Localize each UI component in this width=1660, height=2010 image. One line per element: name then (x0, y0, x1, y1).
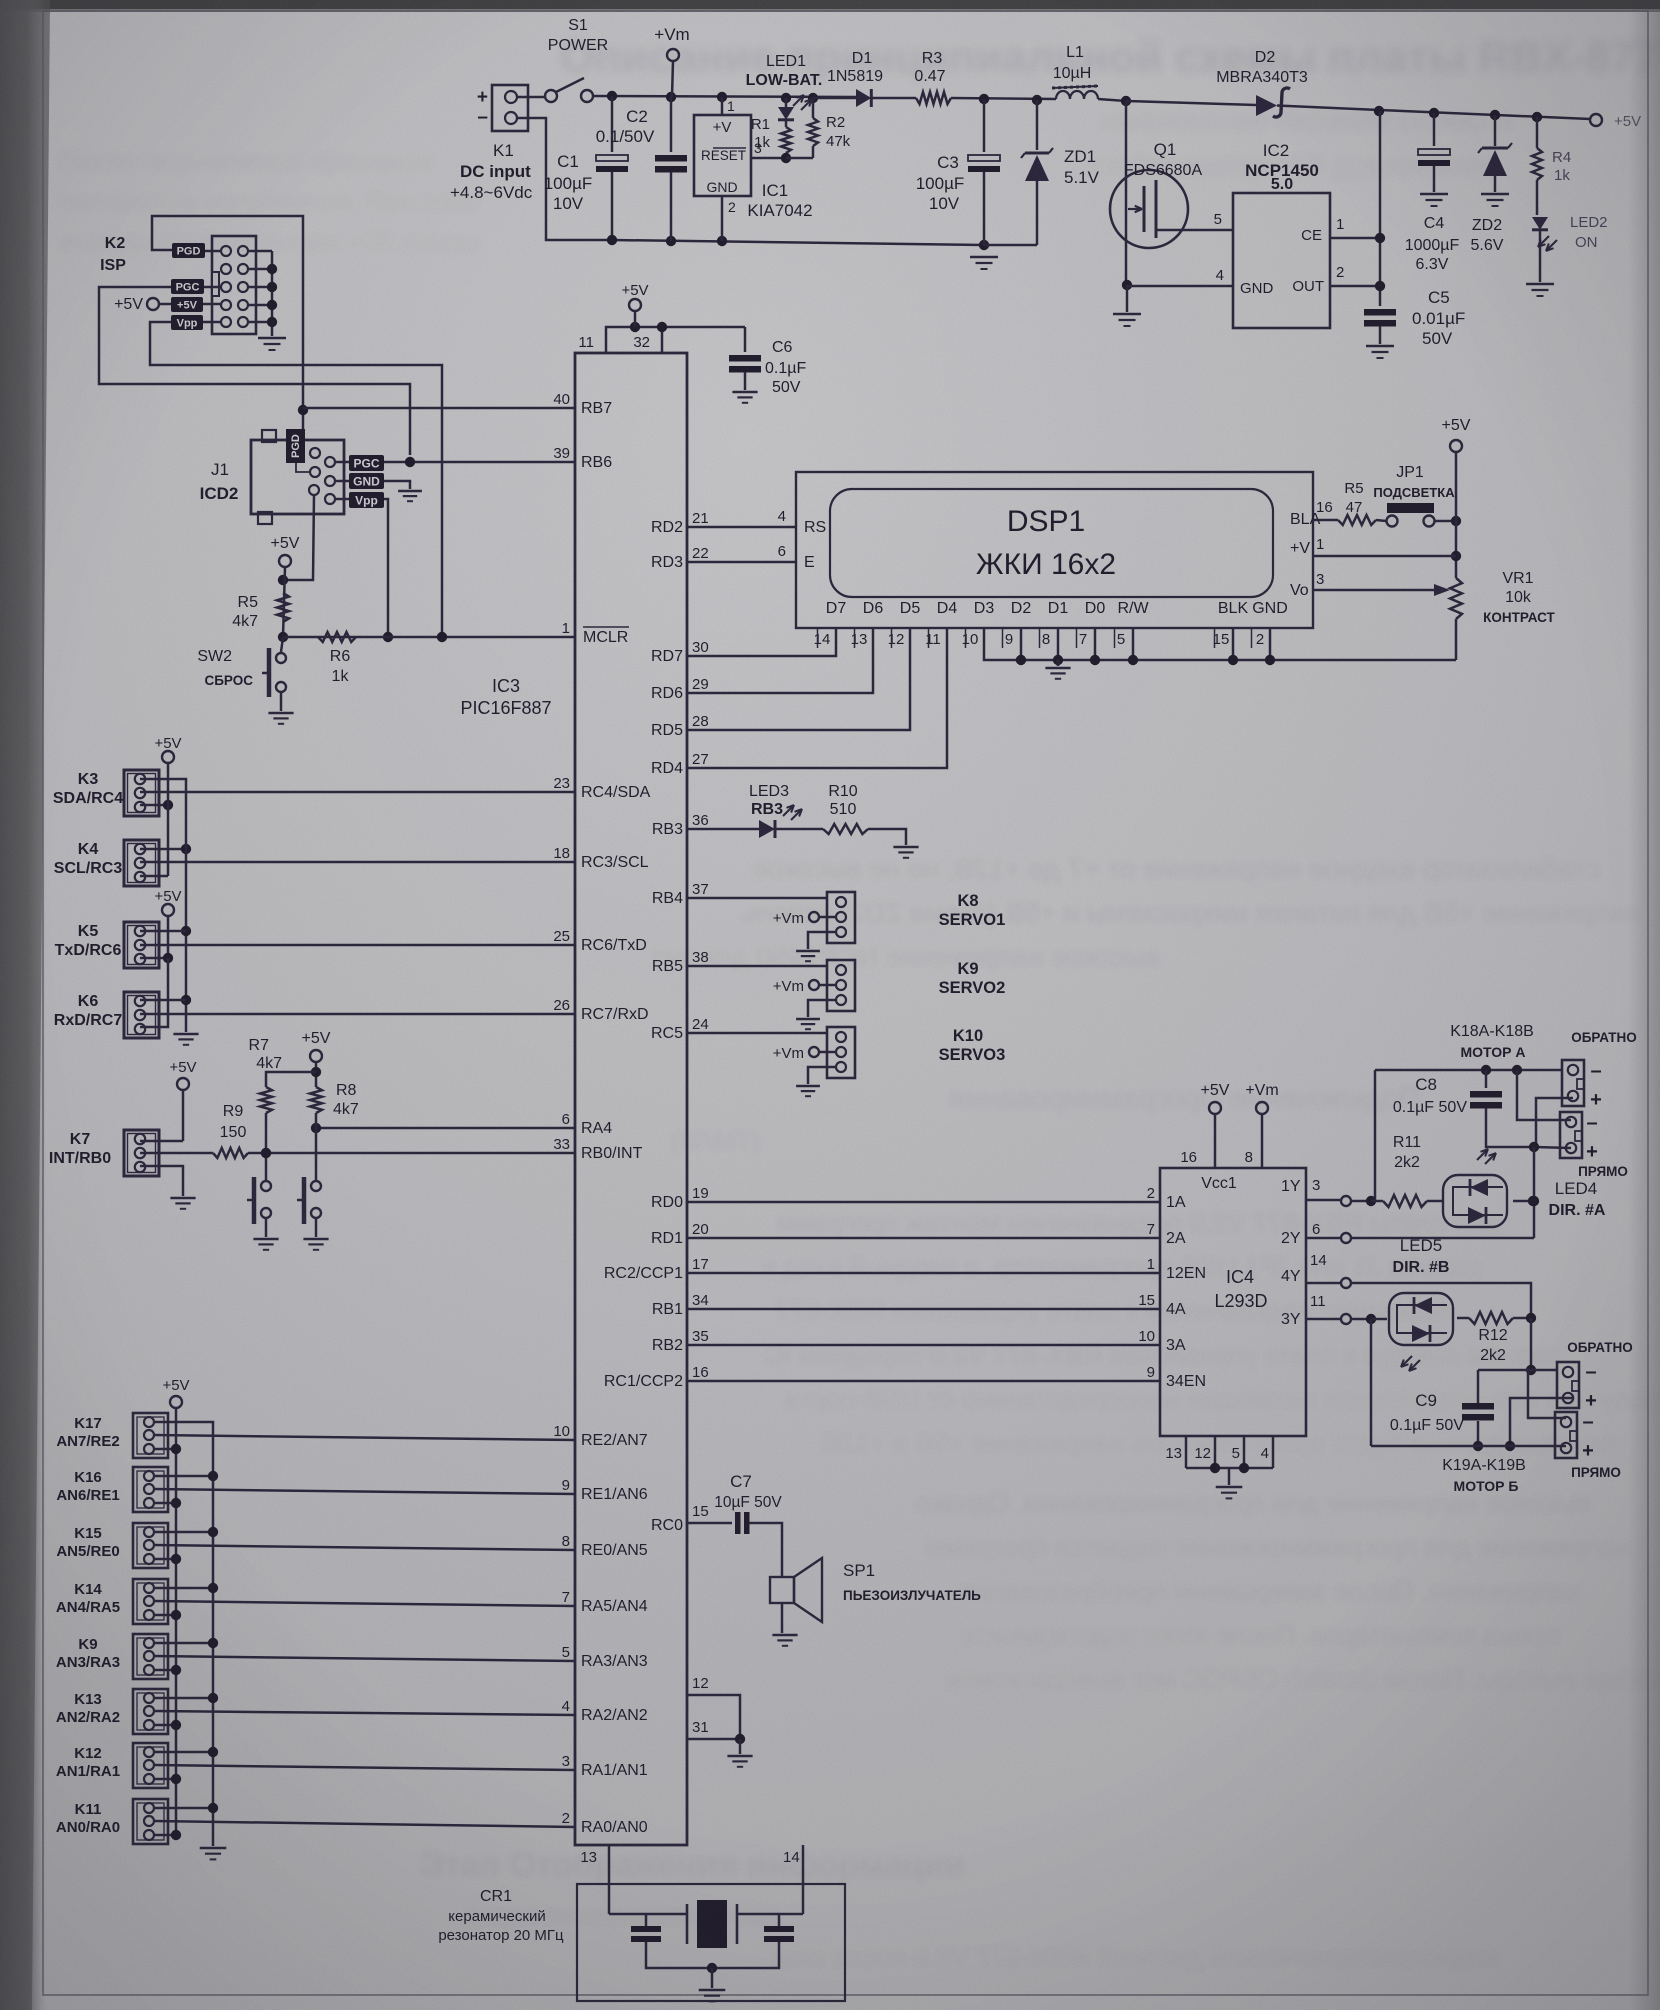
resistor R4 1k (1536, 117, 1539, 148)
IC4 ground pins 13 12 5 4 (1185, 1436, 1188, 1468)
J1 PGD label (286, 429, 305, 463)
wires K15 (154, 1531, 213, 1534)
diode D2 MBRA340T3 (1126, 101, 1256, 105)
connector K1 DC input (492, 85, 528, 131)
connector K14 AN4/RA5 (133, 1579, 168, 1624)
photo dark top edge (0, 0, 1660, 9)
wire K2 Vpp loop (150, 322, 442, 637)
wire K2 PGC loop (99, 287, 410, 455)
connector K9 AN3/RA3 (133, 1634, 168, 1679)
connector K8 SERVO1 (827, 892, 855, 943)
bleed-through middle paragraphs (650, 853, 1660, 1458)
bleed-through bottom paragraphs (420, 1488, 1660, 1972)
zener diode ZD1 5.1V (1032, 95, 1042, 105)
connector K4 SCL/RC3 (124, 840, 159, 886)
ground SW2 (280, 692, 283, 711)
connector K12 AN1/RA1 (133, 1743, 168, 1788)
wire motor B bottom rail (1371, 1445, 1566, 1448)
LCD ground bus D3-D0,R/W,BLK,GND (984, 628, 1456, 660)
IC3 pin RB3 / LED3 (687, 828, 759, 831)
K2 pin labels (172, 243, 205, 258)
IC3 pin RD6 wire to LCD D6 (687, 628, 873, 693)
resistor R8 4k7 (310, 1087, 322, 1113)
wires K9 (154, 1642, 213, 1645)
IC4 L293D motor driver body (1160, 1168, 1306, 1436)
wire MCLR line (283, 636, 575, 639)
connector K3 SDA/RC4 (124, 770, 159, 816)
wire C7 to speaker (749, 1523, 782, 1577)
inductor L1 10uH (1056, 91, 1098, 99)
capacitor C6 0.1uF 50V (744, 327, 747, 352)
wire R12 node down (1530, 1318, 1533, 1370)
ceramic resonator CR1 box (577, 1884, 845, 2001)
resistor R11 2k2 (1383, 1195, 1427, 1207)
capacitor C9 0.1uF 50V (1477, 1370, 1480, 1403)
terminal +5V right (1590, 114, 1602, 126)
connector K7 INT/RB0 (124, 1130, 159, 1176)
K2 label stubs (205, 250, 221, 253)
IC3 pin RC5 (687, 1032, 827, 1035)
motor A terminal block K18A (1562, 1060, 1584, 1106)
connector K10 SERVO3 (827, 1027, 855, 1078)
ground K9 (796, 1018, 820, 1020)
wire J1 Vpp to MCLR (384, 499, 388, 637)
ground K8 (796, 950, 820, 952)
wires K3 (140, 779, 186, 825)
terminal +5V K7 (177, 1078, 189, 1090)
ground IC4 (1216, 1486, 1243, 1488)
resistor R10 510 (775, 828, 823, 831)
IC3 pin RB2 to IC4 3A (687, 1344, 1160, 1347)
wires K17 (154, 1422, 213, 1846)
connector K15 AN5/RE0 (133, 1523, 168, 1568)
wires K4 (140, 848, 186, 851)
IC3 PIC16F887 microcontroller body (575, 353, 687, 1845)
terminal +5V K5K6 (162, 904, 174, 916)
IC3 pin RD0 to IC4 1A (687, 1201, 1160, 1204)
IC3 pin RD1 to IC4 2A (687, 1237, 1160, 1240)
wire K2 PGD loop to J1/RB7 (152, 216, 303, 430)
ground symbol input stage (970, 256, 998, 258)
IC3 pin RD5 wire to LCD D5 (687, 628, 910, 730)
ground rail of input stage (612, 240, 984, 245)
resistor R5 4k7 (277, 593, 289, 622)
ground K10 (796, 1085, 820, 1087)
jumper JP1 backlight (1387, 516, 1398, 527)
wires K11 (154, 1807, 213, 1810)
potentiometer VR1 10k contrast (1434, 584, 1450, 596)
connector K16 AN6/RE1 (133, 1467, 168, 1512)
IC3 power pins 11/32 and +5V (606, 327, 745, 353)
motor A terminal block K18B (1560, 1112, 1582, 1158)
resistor R9 150 (213, 1148, 248, 1158)
J1 PGC label (349, 455, 384, 471)
ground right button (303, 1238, 328, 1240)
K2 right bus to ground (249, 250, 272, 253)
wire motor A plus rail (1534, 1147, 1571, 1148)
wire top rail left (592, 96, 856, 97)
connector K6 RxD/RC7 (124, 992, 159, 1038)
wire motor A cross 1 (1517, 1070, 1571, 1120)
wire 1Y node up to motor A (1374, 1070, 1377, 1201)
IC3 pin RC2/CCP1 to IC4 12EN (687, 1272, 1160, 1275)
wire motor B cross 1 (1528, 1370, 1566, 1418)
wires K12 (154, 1751, 213, 1754)
capacitor C4 1000uF 6.3V (1433, 113, 1436, 146)
resistor R1 1k (785, 121, 788, 127)
resistor R3 0.47 (916, 92, 951, 104)
wire J1 pin to +5V node (283, 495, 314, 580)
wire 3Y node down (1370, 1319, 1373, 1446)
capacitor C2 0.1/50V (670, 97, 673, 152)
ground J1 (384, 481, 410, 489)
resistor R6 1k (318, 632, 356, 642)
ground left button (253, 1238, 278, 1240)
IC3 pin RA4 (316, 1127, 575, 1130)
motor B terminal block K19A (1557, 1362, 1579, 1408)
zener diode ZD2 5.6V (1494, 115, 1497, 146)
resistor R2 47k (812, 98, 815, 118)
terminal +Vm top (667, 49, 679, 61)
J1 Vpp label (349, 492, 384, 508)
resistor R12 2k2 (1457, 1317, 1469, 1320)
wire R1/R2 bottom to IC1 pin3 (786, 157, 813, 160)
wires K6 (140, 999, 186, 1002)
motor B terminal block K19B (1555, 1412, 1577, 1458)
switch S1 POWER (517, 96, 546, 99)
ground R10 (893, 846, 918, 848)
wires K16 (154, 1475, 213, 1478)
ground SP1 (781, 1603, 784, 1633)
wire K1 minus to ground rail (517, 118, 612, 240)
bleed-through heading (60, 33, 1660, 256)
wire motor B cross 2 (1510, 1398, 1573, 1446)
LED5 bidirectional DIR #B (1389, 1293, 1453, 1345)
J1 GND label (349, 473, 384, 489)
GND bus K3-K6 (185, 825, 188, 1032)
wires K13 (154, 1697, 213, 1700)
LED2 ON (1532, 217, 1548, 230)
wire LED4 node down to 2Y (1533, 1147, 1536, 1238)
wire +5V output rail (1379, 110, 1590, 119)
ground analog bus (200, 1847, 227, 1849)
wire CE/OUT node to +5V rail (1379, 111, 1382, 306)
IC3 pin RD7 wire to LCD D7 (687, 628, 836, 656)
IC1 KIA7042 reset supervisor (694, 115, 751, 196)
LCD display DSP1 ZhKI 16x2 (796, 472, 1313, 628)
wire motor A cross 2 (1536, 1098, 1573, 1146)
ground LCD bus (1057, 660, 1060, 666)
resistor R7 4k7 (266, 1072, 316, 1087)
transistor Q1 FDS6680A mosfet (1110, 170, 1188, 248)
wire J1 PGC to RB6 (384, 461, 575, 464)
wires K14 (154, 1587, 213, 1590)
ground LED2 (1526, 283, 1554, 285)
ground CR1 (699, 1989, 726, 1991)
ground K7 (170, 1197, 195, 1199)
IC3 pin RD3 (687, 561, 796, 564)
IC2 NCP1450 5.0 regulator (1233, 193, 1330, 328)
speaker SP1 piezo (770, 1577, 794, 1603)
IC3 pin RB7 (303, 407, 575, 410)
pushbutton SW left (261, 1181, 271, 1191)
IC3 pin RC1/CCP2 to IC4 34EN (687, 1380, 1160, 1383)
capacitor C5 0.01uF 50V (1364, 309, 1396, 316)
connector K17 AN7/RE2 (133, 1413, 168, 1458)
IC3 pin RB1 to IC4 4A (687, 1308, 1160, 1311)
ground pins 12/31 (727, 1755, 752, 1757)
ground K2 (258, 337, 286, 339)
pushbutton SW right (311, 1181, 321, 1191)
wires K5 (140, 930, 186, 933)
photo dark left edge (0, 0, 46, 2010)
LED4 bidirectional DIR #A (1443, 1175, 1507, 1227)
connector K11 AN0/RA0 (133, 1799, 168, 1844)
IC3 pin RB4 (687, 897, 827, 900)
wire motor A top rail (1375, 1069, 1562, 1072)
connector K9 SERVO2 (827, 960, 855, 1011)
IC3 pin RD2 (687, 526, 796, 529)
terminal +5V K3K4 (162, 751, 174, 763)
wire motor B minus rail (1531, 1369, 1557, 1372)
CR1 internals (609, 1913, 687, 1916)
capacitor C3 100uF 10V (983, 99, 986, 152)
capacitor C8 0.1uF 50V (1485, 1070, 1488, 1088)
wires K7 (140, 1140, 183, 1143)
IC3 pin RC0 / capacitor C7 (687, 1522, 732, 1525)
ground Q1 source (1126, 285, 1129, 312)
connector K13 AN2/RA2 (133, 1689, 168, 1734)
ground K3-K6 bus (173, 1033, 198, 1035)
connector K5 TxD/RC6 (124, 922, 159, 968)
diode D1 1N5819 (813, 97, 856, 100)
capacitor C1 100uF 10V (611, 96, 614, 152)
wire 4Y to R12 node (1352, 1283, 1531, 1318)
IC3 pin RD4 wire to LCD D4 (687, 628, 947, 768)
IC3 pin RB5 (687, 965, 827, 968)
